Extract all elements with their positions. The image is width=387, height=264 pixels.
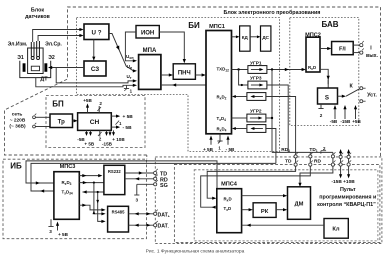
wire: МПС1 feedback to МПА: [161, 84, 206, 86]
wire RS485 DAT-: [129, 224, 154, 226]
svg-text:2: 2: [320, 113, 323, 118]
svg-text:Пульт: Пульт: [340, 187, 356, 193]
driver УГР3: [248, 81, 267, 89]
wire: МПА to ПНЧ: [161, 74, 170, 76]
svg-text:+ 10В: + 10В: [112, 137, 125, 142]
probe electrode Эл.Изм.: [30, 42, 32, 57]
receiver row 5: [247, 125, 266, 133]
dashed enclosure: Блок электронного преобразования (main electronics box): [5, 7, 381, 157]
block S: [318, 88, 338, 104]
МПС1 -5В supply arrow: [227, 139, 229, 145]
svg-text:Эл.Изм.: Эл.Изм.: [8, 42, 28, 48]
wire: receiver row3 from pult (vertical): [265, 97, 295, 153]
svg-text:F/I: F/I: [339, 47, 346, 53]
wire МПС3 to RS232 row A: [79, 175, 100, 177]
wire TD vertical into pult to МПС4 TxD: [201, 152, 311, 207]
wire: U? to СЗ: [93, 40, 95, 58]
svg-text:-15В: -15В: [340, 119, 351, 124]
block ДС: [261, 26, 271, 51]
wire: СЗ to electrode Э2: [51, 67, 84, 69]
svg-text:Рис. 1 Функциональная схема ан: Рис. 1 Функциональная схема анализатора: [146, 248, 245, 254]
СН bottom outputs: [86, 130, 88, 132]
svg-text:2: 2: [99, 101, 102, 106]
block МПА (analog microprocessor): [139, 55, 161, 90]
svg-text:S: S: [325, 94, 329, 101]
wire SG with ground 3: [137, 183, 154, 185]
dashed sub-box БАВ (analog output unit): [290, 18, 359, 126]
ground symbol 2 under S: [320, 104, 322, 109]
dashed sub-box БИ (measuring unit): [77, 18, 280, 152]
block Тр (transformer): [50, 114, 73, 128]
power feed +10В to pult: [348, 151, 350, 175]
block СЗ: [84, 61, 106, 76]
svg-text:+5В: +5В: [352, 119, 361, 124]
wire: УГР1 output to МПС2 RxD: [267, 69, 303, 71]
wire: receiver row5 from ИБ corridor line: [265, 129, 276, 164]
svg-text:-5В: -5В: [330, 119, 338, 124]
power feed -15В to pult: [340, 151, 342, 175]
МПС3 ground 3 and +5В: [50, 219, 52, 224]
svg-text:3: 3: [49, 229, 52, 234]
dashed box: pult outer boundary: [174, 164, 380, 242]
svg-text:РК: РК: [261, 209, 269, 215]
svg-text:3: 3: [136, 198, 139, 203]
svg-text:БАВ: БАВ: [322, 20, 339, 29]
svg-text:КД: КД: [242, 35, 249, 40]
svg-text:ДМ: ДМ: [295, 202, 304, 208]
svg-text:УГР2: УГР2: [250, 109, 262, 115]
wire МПС4 to ДМ: [242, 195, 284, 197]
wire RD1 vertical into pult to МПС4 RxD: [207, 152, 295, 198]
svg-text:RS232: RS232: [108, 169, 121, 174]
svg-text:сеть: сеть: [12, 113, 23, 118]
wire Кл to МПС4: [242, 224, 324, 226]
svg-text:+ 5В: + 5В: [203, 147, 214, 152]
bus mark 1 right of СН: [116, 121, 120, 125]
dashed corridor stub left of connectors: [146, 155, 148, 159]
wire: receiver row3 to МПС1: [235, 96, 247, 98]
dashed box ИБ (interface unit): [3, 159, 147, 239]
svg-text:БП: БП: [52, 100, 64, 109]
wire: ИОН to ПНЧ: [159, 32, 184, 60]
connector circles row1: [294, 155, 297, 158]
wire: УГР3 output down (link to МПС3): [267, 85, 289, 152]
МПС1 ground symbol 1: [219, 134, 221, 138]
СН +5В right output: [111, 115, 116, 117]
svg-text:МПС4: МПС4: [221, 182, 238, 188]
svg-text:программирования и: программирования и: [319, 195, 376, 201]
svg-text:- 5В: - 5В: [226, 147, 235, 152]
wire: Эл.Ср. probe to U? input: [38, 36, 80, 42]
wire: mains to Тр: [35, 116, 50, 118]
svg-text:СН: СН: [90, 119, 100, 126]
dashed box: КВАРЦ-П1 pult inner boundary: [194, 170, 378, 241]
svg-text:ИОН: ИОН: [141, 30, 154, 36]
svg-text:SG: SG: [160, 183, 168, 189]
svg-text:датчиков: датчиков: [25, 14, 50, 20]
svg-text:~ 220В: ~ 220В: [10, 117, 26, 123]
svg-text:+5В: +5В: [83, 98, 92, 103]
block ДМ: [288, 187, 311, 220]
svg-text:МПС3: МПС3: [60, 164, 76, 170]
block ПНЧ: [173, 64, 195, 80]
svg-text:+ 5В: + 5В: [58, 232, 69, 237]
svg-text:U ?: U ?: [92, 30, 102, 37]
block ИОН (reference voltage source): [136, 26, 159, 39]
svg-text:-15В: -15В: [331, 179, 342, 185]
probe electrode Эл.Ср.: [36, 41, 38, 57]
wire: МПС2 down to S: [320, 69, 328, 84]
svg-text:Блок электронного преобразован: Блок электронного преобразования: [224, 9, 321, 16]
dashed box: cable corridor boundary: [155, 157, 382, 244]
long wire P: МПС4 top to МПС3 via ИБ loop: [26, 161, 217, 189]
block РК: [253, 203, 276, 218]
wire: S to switch К: [338, 95, 343, 97]
svg-text:+ 5В: + 5В: [84, 142, 95, 147]
svg-text:Уст.: Уст.: [367, 92, 377, 98]
sensor body rectangle: [28, 48, 43, 74]
svg-text:Блок: Блок: [31, 8, 45, 14]
svg-text:ДС: ДС: [262, 35, 269, 40]
wire: УГР2 output joins branch: [265, 117, 272, 119]
block МПС1 (microprocessor system 1): [206, 31, 232, 134]
block RS232: [104, 165, 125, 194]
block МПС3: [54, 172, 79, 220]
svg-text:- 5В: - 5В: [123, 125, 133, 131]
wire RS232 TD output: [125, 172, 154, 174]
svg-text:СЗ: СЗ: [91, 66, 99, 73]
block RS485: [108, 206, 129, 232]
wire: temperature Uт to МПА: [56, 68, 133, 83]
wire: TXD branch down to pult bus: [271, 70, 273, 153]
СН +5В output up: [87, 107, 89, 113]
wire МПС4 to РК: [242, 209, 250, 211]
svg-text:+10В: +10В: [343, 179, 355, 185]
svg-text:МПА: МПА: [143, 48, 157, 54]
wire: МПС1 to УГР2: [232, 117, 247, 119]
ground symbol 1 on cell common wire: [126, 85, 128, 88]
temperature sensor ДТ rectangle: [31, 66, 39, 71]
wire: receiver row5 to МПС1: [235, 128, 247, 130]
bus wire to pult connectors: [272, 151, 333, 153]
svg-text:+ 5В: + 5В: [123, 114, 134, 120]
СН -5В right output: [111, 126, 116, 128]
bus width 2 bracket: [320, 151, 322, 154]
block МПС4: [217, 189, 242, 233]
wire: ПНЧ to МПС1: [195, 74, 202, 76]
block КД: [240, 26, 251, 51]
electrode plate Э2: [44, 63, 47, 72]
electrode plate Э1: [23, 63, 26, 72]
block Кл (keyboard): [324, 219, 348, 239]
dashed sub-box БП (power supply): [46, 96, 145, 148]
МПС1 +5В supply arrow: [210, 139, 212, 145]
wire: ИОН to МПА Uоп input: [125, 32, 136, 61]
svg-text:Эл.Ср.: Эл.Ср.: [45, 42, 62, 48]
svg-text:-15В: -15В: [102, 142, 113, 147]
driver УГР1: [248, 66, 267, 74]
wire: cell common to МПА pin 4: [36, 78, 134, 87]
long wire Q: МПС3 to МПС1 row5 via ИБ loop: [31, 163, 276, 191]
wire РК to ДМ: [276, 209, 284, 211]
wire branch down to RS485 in1: [94, 183, 103, 214]
wire RS232 RD input: [125, 178, 154, 180]
connector circles row2: [294, 163, 297, 166]
svg-text:Кл: Кл: [332, 227, 340, 233]
block F/I: [332, 42, 354, 55]
wire МПС3 to RS232 row B: [79, 182, 104, 184]
svg-text:Э1: Э1: [17, 55, 24, 61]
svg-text:БИ: БИ: [188, 21, 200, 30]
wire: МПС1 TXD to УГР1 with junction: [232, 69, 248, 71]
wire: TXD branch down to УГР3: [239, 70, 248, 86]
СН bus 2 up: [98, 106, 100, 113]
wire: МПС2 to F/I: [320, 48, 328, 50]
svg-text:RD: RD: [314, 159, 321, 165]
svg-text:вых.: вых.: [366, 53, 379, 59]
wire RD vertical into pult to ДМ: [300, 152, 333, 183]
svg-text:ДТ: ДТ: [40, 76, 48, 82]
svg-text:ИБ: ИБ: [10, 162, 22, 171]
svg-text:TD: TD: [285, 159, 292, 165]
svg-text:Тр: Тр: [58, 119, 65, 125]
block СН (voltage stabilizer): [78, 113, 112, 131]
svg-text:DAT-: DAT-: [158, 224, 169, 230]
svg-text:(~ 36В): (~ 36В): [9, 123, 26, 129]
wire: F/I to output terminals: [353, 44, 359, 46]
svg-text:Э2: Э2: [48, 55, 55, 61]
БАВ power arrows -5В -15В +5В: [334, 109, 336, 120]
wire: Тр to СН: [73, 120, 75, 122]
wire: КД to ДС: [250, 36, 257, 38]
measuring cell cup: [20, 61, 51, 78]
wire: Эл.Изм. probe to U? input: [33, 30, 80, 43]
wire МПС3 row C from RS485: [83, 191, 104, 193]
receiver row 3: [247, 93, 266, 101]
svg-text:МПС1: МПС1: [209, 24, 225, 30]
wire RS485 DAT+: [129, 213, 154, 215]
wire МПС3 row D to RS485: [79, 205, 103, 210]
switch К to Уст.: [346, 89, 360, 97]
svg-text:ПНЧ: ПНЧ: [178, 71, 191, 77]
wire: U? to МПА Uи input (diagonal): [109, 34, 133, 71]
driver УГР2: [247, 114, 266, 122]
svg-text:контроля “КВАРЦ-П1”: контроля “КВАРЦ-П1”: [317, 202, 376, 208]
op-block U? (input amplifier): [84, 24, 109, 40]
block МПС2: [306, 37, 320, 72]
wire: МПС1 to КД: [232, 36, 236, 38]
svg-text:RS485: RS485: [112, 210, 125, 215]
